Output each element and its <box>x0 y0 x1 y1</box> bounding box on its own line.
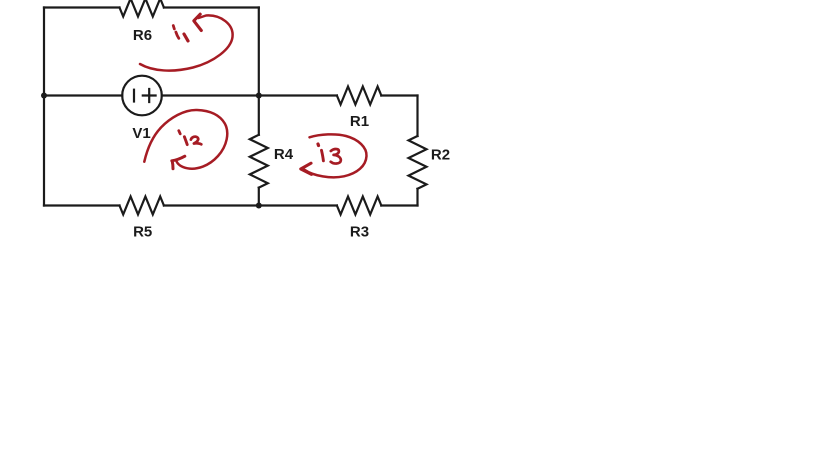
svg-text:R2: R2 <box>431 147 450 164</box>
i3 dot of i <box>316 144 320 146</box>
i2 arrowhead <box>172 156 185 169</box>
resistor R6 <box>120 0 164 17</box>
voltage source V1 <box>122 76 162 116</box>
svg-text:R5: R5 <box>133 224 152 241</box>
wire right vertical lower <box>416 189 418 206</box>
wire top-right horizontal segment <box>164 6 259 8</box>
resistor R4 <box>250 135 268 188</box>
node junction dot center-bottom <box>256 203 262 209</box>
svg-text:R3: R3 <box>350 224 369 241</box>
i1 dot of i <box>173 26 174 29</box>
i2 stem of i <box>184 137 187 145</box>
i3 arrowhead <box>301 163 312 174</box>
i1 arrowhead <box>194 14 202 30</box>
resistor R1 <box>337 87 381 105</box>
resistor R5 <box>120 197 164 215</box>
i2 subscript 2 <box>191 137 201 145</box>
wire middle-right segment <box>162 94 337 96</box>
i2 dot of i <box>179 131 180 134</box>
V1 plus sign <box>143 89 156 102</box>
i1 stem of i <box>176 32 179 38</box>
wire center vertical upper (node column) <box>258 8 260 135</box>
svg-text:V1: V1 <box>132 125 150 142</box>
resistor R2 <box>409 136 427 189</box>
wire middle-left segment <box>44 94 122 96</box>
wire center vertical lower <box>258 188 260 206</box>
V1 minus terminal bar <box>133 90 135 102</box>
wire top-left horizontal segment <box>44 6 120 8</box>
wire bottom-right segment <box>381 204 417 206</box>
node junction dot center <box>256 93 262 99</box>
mesh current i3 arrow loop <box>305 134 367 177</box>
mesh current i2 arrow loop <box>144 110 227 169</box>
resistor R3 <box>337 197 381 215</box>
svg-text:R4: R4 <box>274 146 294 163</box>
i3 stem of i <box>322 150 324 161</box>
svg-text:R1: R1 <box>350 113 369 130</box>
i3 subscript 3 <box>331 149 341 164</box>
svg-text:R6: R6 <box>133 27 152 44</box>
wire bottom-left segment <box>44 204 120 206</box>
wire right vertical upper <box>416 96 418 137</box>
wire bottom-middle segment <box>164 204 337 206</box>
wire middle to right corner <box>381 94 417 96</box>
wire left vertical <box>43 8 45 206</box>
node junction dot left <box>41 93 47 99</box>
mesh current i1 arrow loop <box>140 15 233 70</box>
i1 subscript 1 <box>184 34 188 41</box>
